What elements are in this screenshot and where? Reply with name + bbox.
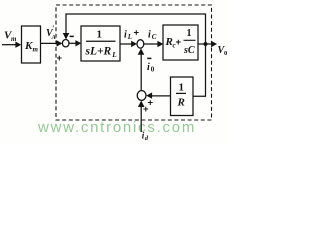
node V'A label xyxy=(46,24,57,41)
svg-text:i: i xyxy=(148,30,151,41)
sign minus at S1 top feedback input xyxy=(70,35,74,37)
node Vm input label xyxy=(4,30,17,44)
svg-text:A: A xyxy=(51,34,57,41)
wire block 1/R output to summing junction S3 xyxy=(146,92,170,98)
label id xyxy=(142,130,149,142)
sign plus at S2 left input xyxy=(134,28,140,39)
summing junction S3 xyxy=(137,91,146,101)
label iC xyxy=(148,30,157,41)
wire V0 output with arrowhead xyxy=(198,41,217,47)
wire Km output to summing junction S1 xyxy=(41,40,63,46)
svg-text:+: + xyxy=(57,53,63,64)
svg-text:L: L xyxy=(111,50,117,59)
node V0 label xyxy=(218,45,228,57)
svg-text:i: i xyxy=(124,30,127,41)
wire iL from block1 to summing junction S2 xyxy=(120,41,137,47)
svg-text:1: 1 xyxy=(187,28,192,39)
sign minus at S2 bottom input xyxy=(147,57,151,59)
sign plus at S1 lower-left input xyxy=(57,53,63,64)
sign plus at S3 right input xyxy=(148,98,154,109)
wire id from bottom into S3 (arrow up) xyxy=(138,101,145,133)
svg-text:m: m xyxy=(33,46,39,54)
svg-text:C: C xyxy=(152,33,157,41)
svg-text:0: 0 xyxy=(224,50,227,57)
svg-text:+: + xyxy=(143,104,149,115)
wire Vm input with arrowhead xyxy=(2,42,21,48)
svg-text:1: 1 xyxy=(97,29,103,41)
node junction dot on output line xyxy=(204,42,208,46)
block Km (gain) xyxy=(22,26,41,63)
block 1/(sL+RL) xyxy=(81,26,120,61)
svg-text:R: R xyxy=(177,97,185,109)
svg-text:+: + xyxy=(176,37,182,48)
block Rc+1/sC xyxy=(163,25,198,60)
svg-text:sL+R: sL+R xyxy=(85,46,112,58)
label iL xyxy=(124,30,132,41)
svg-text:1: 1 xyxy=(179,82,185,94)
wire V0 node down to block 1/R input xyxy=(193,45,206,96)
wire i0 from S3 up into S2 (arrow up) xyxy=(138,48,145,91)
wire feedback from V0 node over the top into S1 (arrow down) xyxy=(63,14,206,43)
watermark www.cntronics.com xyxy=(37,119,196,136)
wire iC from S2 to block Rc+1/sC xyxy=(144,41,164,47)
sign plus at S3 bottom input xyxy=(143,104,149,115)
svg-text:www.cntronics.com: www.cntronics.com xyxy=(37,119,196,136)
dashed boundary box xyxy=(56,5,212,120)
svg-text:i: i xyxy=(147,62,150,73)
label i0 xyxy=(147,62,155,73)
svg-text:′: ′ xyxy=(52,24,54,33)
svg-text:L: L xyxy=(127,33,132,41)
summing junction S2 xyxy=(137,40,144,48)
svg-text:sC: sC xyxy=(183,45,195,56)
block 1/R xyxy=(171,77,194,116)
svg-text:+: + xyxy=(134,28,140,39)
summing junction S1 xyxy=(62,40,69,47)
svg-text:m: m xyxy=(11,35,17,43)
svg-text:0: 0 xyxy=(151,65,155,73)
wire S1 to block 1/(sL+RL) xyxy=(69,40,81,46)
